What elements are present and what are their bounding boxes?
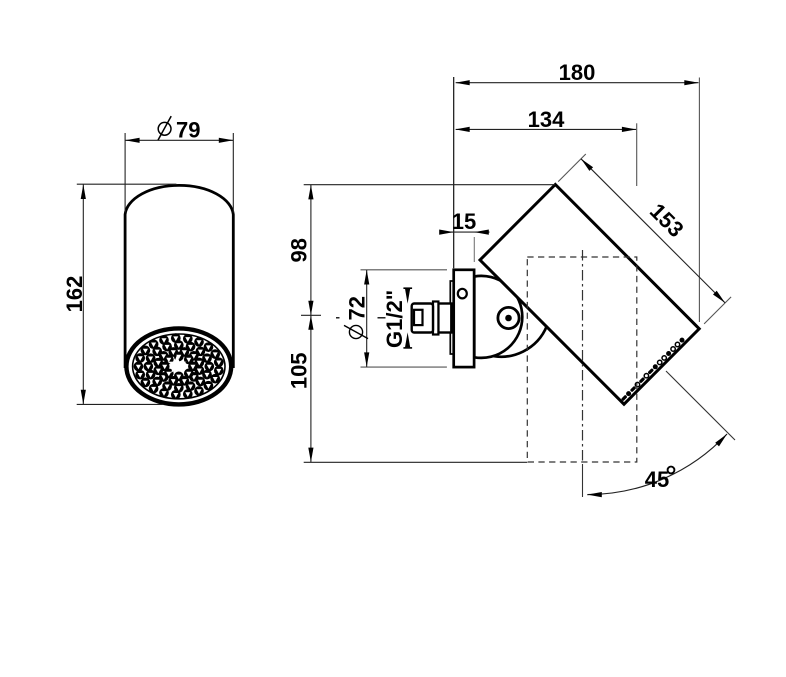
svg-text:98: 98 bbox=[286, 238, 311, 262]
svg-text:G1/2": G1/2" bbox=[382, 290, 407, 348]
svg-text:15: 15 bbox=[452, 209, 476, 234]
svg-text:105: 105 bbox=[286, 352, 311, 389]
svg-text:162: 162 bbox=[62, 276, 87, 313]
svg-text:72: 72 bbox=[344, 296, 369, 320]
svg-text:180: 180 bbox=[559, 60, 596, 85]
svg-text:45: 45 bbox=[645, 467, 669, 492]
svg-text:134: 134 bbox=[528, 107, 565, 132]
svg-text:79: 79 bbox=[176, 117, 200, 142]
